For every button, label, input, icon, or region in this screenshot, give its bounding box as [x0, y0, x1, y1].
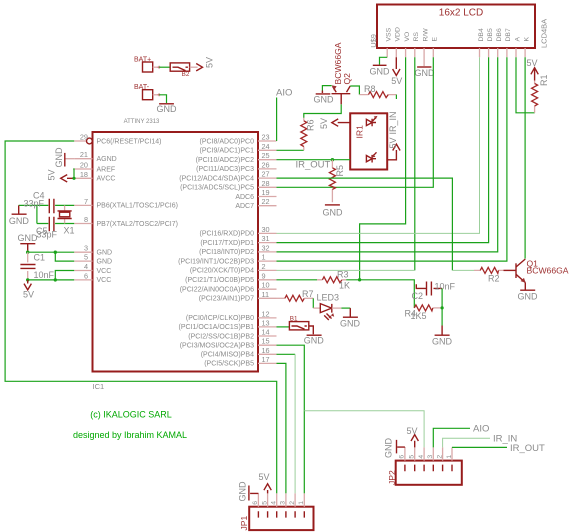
svg-text:E: E: [432, 37, 439, 42]
svg-text:(PCI3/MOSI/OC2A)PB3: (PCI3/MOSI/OC2A)PB3: [180, 343, 254, 350]
ground at AGND pin21: [54, 147, 74, 168]
wire C4/C5 left join: [36, 205, 38, 223]
wire VCC row pin6: [28, 279, 74, 281]
MCU pin 5 (GND): [74, 260, 92, 262]
svg-text:A: A: [514, 37, 521, 42]
svg-text:R7: R7: [302, 289, 314, 299]
svg-text:(PCI9/ADC1)PC1: (PCI9/ADC1)PC1: [200, 148, 255, 155]
svg-text:(PCI11/ADC3)PC3: (PCI11/ADC3)PC3: [196, 166, 254, 173]
svg-text:DB6: DB6: [496, 28, 503, 41]
svg-text:AGND: AGND: [97, 156, 117, 163]
wire LED3 cathode to ground: [332, 307, 342, 309]
svg-text:GND: GND: [18, 233, 39, 243]
svg-text:5V: 5V: [391, 76, 402, 86]
svg-text:16x2 LCD: 16x2 LCD: [439, 8, 483, 19]
wire VCC row pin4: [55, 271, 74, 280]
LCD pin stubs: [387, 48, 525, 66]
svg-text:DB5: DB5: [487, 28, 494, 41]
svg-text:5: 5: [261, 501, 268, 505]
wire R3 to R4/C2: [346, 280, 414, 308]
svg-text:AVCC: AVCC: [97, 176, 116, 183]
svg-text:5: 5: [409, 455, 416, 459]
svg-text:R8: R8: [364, 84, 376, 94]
wire LCD K to Q1 collector: [524, 57, 526, 258]
5V supply at JP2 pin5: [407, 426, 419, 447]
svg-text:31: 31: [262, 234, 270, 243]
svg-text:5V: 5V: [47, 169, 57, 180]
IR module IR1 box: [350, 113, 387, 169]
svg-text:GND: GND: [384, 438, 394, 459]
junction VO/R3 node: [358, 278, 361, 281]
svg-text:2: 2: [436, 455, 443, 459]
wire RESET rail: pin29 left, down, right to JP1 pin4: [5, 141, 277, 493]
wire R6 top to Q2 base: [304, 104, 341, 118]
svg-text:PB7(XTAL2/TOSC2/PCI7): PB7(XTAL2/TOSC2/PCI7): [97, 221, 178, 228]
svg-text:1K: 1K: [339, 281, 350, 291]
svg-text:(PCI4/MISO)PB4: (PCI4/MISO)PB4: [201, 352, 254, 359]
svg-text:6: 6: [84, 271, 88, 280]
wire BAT+ to B2: [159, 66, 170, 68]
MCU pin 27 ((PCI12/ADC4/SDA)PC4): [258, 177, 277, 179]
ground at JP1 pin6: [238, 481, 259, 502]
MCU pin 17 ((PCI5/SCK)PB5): [258, 362, 277, 364]
svg-text:2: 2: [289, 501, 296, 505]
svg-text:R2: R2: [488, 274, 500, 284]
JP1 pin leads: [258, 493, 304, 506]
svg-text:Q2: Q2: [342, 73, 352, 85]
ground under VSS: [370, 65, 391, 76]
5V supply at JP1 pin5: [259, 472, 272, 493]
svg-text:22: 22: [262, 197, 270, 206]
svg-text:(PCI10/ADC2)PC2: (PCI10/ADC2)PC2: [196, 157, 254, 164]
svg-text:R/W: R/W: [422, 28, 429, 42]
ground below C2/R4: [432, 326, 453, 347]
svg-text:1K5: 1K5: [411, 311, 427, 321]
svg-text:6: 6: [399, 455, 406, 459]
svg-text:6: 6: [252, 501, 259, 505]
ground at Q1 emitter: [518, 283, 539, 302]
wire pin25 to IR1 (IR_OUT net): [277, 159, 351, 161]
svg-text:GND: GND: [518, 292, 539, 302]
wire branch to JP2 pin4: [304, 411, 424, 448]
svg-text:9: 9: [262, 271, 266, 280]
ground below LED3: [340, 317, 361, 328]
svg-text:15: 15: [262, 337, 270, 346]
LED LED3: [313, 293, 339, 321]
MCU pin 8 (PB7(XTAL2/TOSC2/PCI7)): [74, 223, 92, 225]
svg-text:(PCI21/T1/OC0B)PD5: (PCI21/T1/OC0B)PD5: [185, 277, 254, 284]
wire GND row pin5: [55, 252, 74, 261]
svg-text:10: 10: [262, 281, 270, 290]
svg-text:17: 17: [262, 355, 270, 364]
wire LCD VO net: down, left, down to R3/R4 node: [360, 57, 406, 279]
svg-text:JP2: JP2: [387, 470, 397, 485]
junction C2/R4: [441, 306, 444, 309]
wire pin15 to JP1 pin1 and JP2 pin4: [277, 345, 305, 493]
svg-text:K: K: [523, 37, 530, 42]
svg-text:GND: GND: [370, 67, 391, 77]
wire Q2 emitter to ground: [322, 86, 331, 91]
svg-text:29: 29: [80, 133, 88, 142]
wire LCD DB4 net: [277, 57, 480, 233]
svg-text:5V: 5V: [23, 290, 34, 300]
svg-text:(PCI17/TXD)PD1: (PCI17/TXD)PD1: [200, 240, 254, 247]
svg-text:designed by Ibrahim KAMAL: designed by Ibrahim KAMAL: [73, 430, 187, 440]
resistor R8: [359, 84, 396, 98]
crystal X1: [58, 205, 75, 235]
svg-text:7: 7: [84, 197, 88, 206]
wire B1 to ground: [309, 326, 314, 334]
svg-text:14: 14: [262, 328, 270, 337]
svg-text:20: 20: [80, 161, 88, 170]
svg-text:(c) IKALOGIC SARL: (c) IKALOGIC SARL: [90, 410, 172, 420]
wire AIO stub from pin23: [276, 98, 278, 142]
resistor R4 1K5: [405, 305, 443, 321]
svg-text:1: 1: [298, 501, 305, 505]
JP2 pads: [405, 465, 452, 472]
transistor Q1 BCW66GA: [504, 259, 569, 283]
MCU pin 2 ((PCI20/XCK/T0)PD4): [258, 269, 277, 271]
svg-text:IR1: IR1: [354, 125, 364, 139]
MCU pin 15 ((PCI3/MOSI/OC2A)PB3): [258, 344, 277, 346]
MCU pin 11 ((PCI23/AIN1)PD7): [258, 297, 277, 299]
svg-text:33pF: 33pF: [37, 230, 58, 240]
svg-text:1: 1: [262, 253, 266, 262]
svg-text:(PCI16/RXD)PD0: (PCI16/RXD)PD0: [200, 231, 255, 238]
svg-text:26: 26: [262, 160, 270, 169]
svg-text:3: 3: [280, 501, 287, 505]
resistor R6: [301, 118, 316, 151]
svg-text:U$9: U$9: [369, 34, 378, 48]
LCD display U$9: [377, 5, 535, 49]
MCU pin 26 ((PCI11/ADC3)PC3): [258, 168, 277, 170]
5V supply at AVCC pin18: [47, 169, 76, 182]
svg-text:(PCI23/AIN1)PD7: (PCI23/AIN1)PD7: [199, 296, 254, 303]
MCU pin 32 ((PCI18/INT0)PD2): [258, 251, 277, 253]
svg-text:5V: 5V: [259, 472, 270, 482]
svg-text:B1: B1: [290, 316, 298, 323]
svg-text:AREF: AREF: [97, 166, 116, 173]
resistor R7: [285, 289, 314, 301]
svg-text:VCC: VCC: [97, 277, 112, 284]
svg-text:AIO: AIO: [276, 88, 292, 99]
svg-text:VO: VO: [404, 32, 411, 42]
svg-text:(PCI22/AIN0OC0A)PD6: (PCI22/AIN0OC0A)PD6: [180, 287, 254, 294]
wire JP2 pin1 to IR_OUT label: [452, 446, 507, 448]
junction C1 top: [26, 251, 29, 254]
svg-text:32: 32: [262, 243, 270, 252]
MCU pin 12 ((PCI0/ICP/CLKO)PB0): [258, 317, 277, 319]
MCU pin 19 (ADC6): [258, 196, 277, 198]
svg-text:GND: GND: [415, 68, 436, 78]
svg-text:GND: GND: [314, 95, 335, 105]
svg-text:10nF: 10nF: [34, 270, 55, 280]
MCU pin 30 ((PCI16/RXD)PD0): [258, 232, 277, 234]
svg-text:GND: GND: [238, 481, 248, 502]
ground below BAT-: [157, 104, 178, 114]
svg-text:R6: R6: [305, 119, 315, 131]
svg-text:VSS: VSS: [386, 27, 393, 41]
svg-text:IR_OUT: IR_OUT: [296, 160, 331, 171]
5V supply at VDD: [391, 57, 402, 86]
svg-text:R5: R5: [335, 165, 345, 177]
svg-text:11: 11: [262, 290, 270, 299]
capacitor C4 33pF: [24, 191, 54, 214]
svg-text:BCW66GA: BCW66GA: [527, 266, 569, 276]
svg-text:33pF: 33pF: [24, 199, 45, 209]
junction R5 top: [331, 158, 334, 161]
MCU pin 22 (ADC7): [258, 205, 277, 207]
svg-text:R1: R1: [539, 74, 549, 86]
svg-text:ATTINY 2313: ATTINY 2313: [124, 119, 160, 125]
svg-text:GND: GND: [97, 250, 113, 257]
svg-text:GND: GND: [9, 216, 30, 226]
MCU pin 25 ((PCI10/ADC2)PC2): [258, 159, 277, 161]
MCU pin 6 (VCC): [74, 279, 92, 281]
svg-text:30: 30: [262, 225, 270, 234]
svg-text:(PCI18/INT0)PD2: (PCI18/INT0)PD2: [199, 249, 254, 256]
resistor R1: [526, 58, 549, 113]
MCU pin 1 ((PCI19/INT1/OC2B)PD3): [258, 260, 277, 262]
svg-text:DB7: DB7: [505, 28, 512, 41]
wire JP2 pin3 to AIO label: [433, 428, 470, 447]
JP2 pin numbers: [399, 455, 453, 459]
MCU pin 20 (AREF): [74, 168, 92, 170]
svg-text:19: 19: [262, 188, 270, 197]
svg-text:28: 28: [262, 179, 270, 188]
wire R7 to LED3: [312, 298, 314, 308]
wire LCD E net: down to pin28 row, left to IC: [277, 57, 434, 187]
svg-text:4: 4: [418, 455, 425, 459]
battery terminal BAT-: [134, 84, 161, 100]
capacitor C5 33pF: [36, 217, 58, 240]
svg-text:GND: GND: [54, 147, 64, 168]
svg-text:GND: GND: [157, 104, 178, 114]
svg-text:IR_OUT: IR_OUT: [510, 443, 545, 454]
junction C1 bottom: [26, 278, 29, 281]
svg-text:21: 21: [80, 150, 88, 159]
5V supply below C1: [23, 280, 34, 300]
svg-text:3: 3: [84, 244, 88, 253]
JP1 pads: [258, 511, 304, 517]
wire VSS to ground: [380, 57, 388, 65]
ground below B1: [304, 335, 325, 345]
wire JP2 pin2 to IR_IN label: [443, 438, 490, 447]
svg-text:24: 24: [262, 142, 270, 151]
wire Q2 collector to R8: [350, 86, 359, 95]
battery terminal BAT+: [134, 57, 161, 73]
wire LCD DB5 net: [277, 57, 489, 242]
wire LCD DB6 net: [277, 57, 498, 252]
svg-text:ADC6: ADC6: [235, 194, 254, 201]
svg-text:5V: 5V: [205, 57, 215, 68]
svg-text:AIO: AIO: [473, 424, 489, 435]
wire R8 to IR_IN label stub: [395, 95, 397, 99]
svg-text:GND: GND: [432, 337, 453, 347]
svg-text:2: 2: [262, 262, 266, 271]
svg-text:VCC: VCC: [97, 268, 112, 275]
svg-text:3: 3: [427, 455, 434, 459]
svg-text:25: 25: [262, 151, 270, 160]
MCU pin 31 ((PCI17/TXD)PD1): [258, 242, 277, 244]
wire XTAL2 pin8 row: [37, 223, 74, 225]
wire pin24 to R6: [277, 149, 304, 151]
switch B2: [170, 63, 190, 78]
ground below R5: [323, 205, 344, 218]
wire C2/R4 to ground: [441, 288, 443, 325]
svg-text:13: 13: [262, 318, 270, 327]
svg-text:JP1: JP1: [239, 515, 249, 530]
junction pin4 branch: [54, 278, 57, 281]
connector JP2: [387, 461, 462, 485]
JP1 pin numbers: [252, 501, 305, 505]
IR1 detector diode: [366, 152, 376, 162]
MCU pin 16 ((PCI4/MISO)PB4): [258, 353, 277, 355]
IR1 emitter diode: [366, 116, 377, 126]
5V supply at IR1 right pin: [387, 137, 400, 159]
MCU pin 23 ((PCI8/ADC0)PC0): [258, 140, 277, 142]
svg-text:5V: 5V: [319, 118, 329, 129]
JP2 pin leads: [405, 447, 452, 460]
wire pin9 to R3: [277, 279, 318, 281]
svg-text:VDD: VDD: [395, 27, 402, 41]
MCU pin 7 (PB6(XTAL1/TOSC1/PCI6)): [74, 204, 92, 206]
wire pin17 to JP1 pin3: [277, 363, 286, 493]
svg-text:GND: GND: [323, 208, 344, 218]
svg-text:10nF: 10nF: [435, 282, 456, 292]
MCU pin 24 ((PCI9/ADC1)PC1): [258, 149, 277, 151]
svg-text:(PCI20/XCK/T0)PD4: (PCI20/XCK/T0)PD4: [190, 268, 254, 275]
svg-text:C1: C1: [34, 253, 46, 263]
svg-text:RS: RS: [413, 32, 420, 42]
wire GND row pin3: [28, 251, 74, 253]
svg-text:1: 1: [446, 455, 453, 459]
svg-text:(PCI8/ADC0)PC0: (PCI8/ADC0)PC0: [200, 138, 255, 145]
MCU IC1 box: [93, 132, 259, 372]
connector JP1: [239, 507, 314, 531]
svg-text:(PCI5/SCK)PB5: (PCI5/SCK)PB5: [204, 361, 254, 368]
svg-text:PC6(/RESET/PCI14): PC6(/RESET/PCI14): [97, 138, 162, 145]
MCU pin 28 ((PCI13/ADC5/SCL)PC5): [258, 186, 277, 188]
svg-text:(PCI2/SS/OC1B)PB2: (PCI2/SS/OC1B)PB2: [188, 333, 254, 340]
MCU pin 29 (PC6(/RESET/PCI14)): [74, 140, 86, 142]
MCU pin 10 ((PCI22/AIN0OC0A)PD6): [258, 288, 277, 290]
wire LCD RS net: down to PD4 row: [414, 57, 416, 270]
svg-text:(PCI1/OC1A/OC1S)PB1: (PCI1/OC1A/OC1S)PB1: [179, 324, 255, 331]
svg-text:LED3: LED3: [317, 293, 340, 303]
svg-text:5: 5: [84, 253, 88, 262]
ground left of C4: [9, 205, 30, 226]
ground above C1: [18, 233, 39, 251]
svg-text:5V: 5V: [407, 426, 418, 436]
wire pin13 to B1: [277, 326, 290, 328]
wire pin27 to R2 node: [277, 178, 453, 270]
capacitor C1 10nF: [20, 252, 54, 280]
MCU pin 14 ((PCI2/SS/OC1B)PB2): [258, 335, 277, 337]
svg-text:LCD4BA: LCD4BA: [540, 19, 549, 48]
svg-text:12: 12: [262, 309, 270, 318]
svg-text:C2: C2: [412, 291, 424, 301]
MCU pin 4 (VCC): [74, 270, 92, 272]
svg-text:(PCI0/ICP/CLKO)PB0: (PCI0/ICP/CLKO)PB0: [186, 315, 254, 322]
MCU pin 18 (AVCC): [74, 177, 92, 179]
svg-text:8: 8: [84, 215, 88, 224]
resistor R2: [474, 267, 504, 283]
MCU pin 21 (AGND): [74, 158, 92, 160]
ground under R/W: [415, 67, 436, 78]
svg-text:5V: 5V: [526, 58, 537, 68]
MCU pin 13 ((PCI1/OC1A/OC1S)PB1): [258, 326, 277, 328]
5V supply right of B2: [190, 57, 215, 71]
svg-text:4: 4: [271, 501, 278, 505]
svg-text:4: 4: [84, 262, 88, 271]
switch B1: [289, 316, 308, 330]
wire pin2 RS row: [277, 269, 415, 271]
svg-text:18: 18: [80, 170, 88, 179]
svg-text:R3: R3: [337, 270, 349, 280]
MCU pin 9 ((PCI21/T1/OC0B)PD5): [258, 279, 277, 281]
ground at Q2 emitter: [314, 91, 335, 105]
resistor R3 1K: [317, 270, 350, 291]
transistor Q2 BCW66GA: [332, 42, 353, 104]
svg-text:5V: 5V: [388, 137, 398, 148]
svg-text:GND: GND: [97, 258, 113, 265]
wire pin16 to JP1 pin2: [277, 353, 296, 355]
wire LCD A to R1: [516, 57, 535, 113]
svg-text:ADC7: ADC7: [235, 203, 254, 210]
svg-text:(PCI19/INT1/OC2B)PD3: (PCI19/INT1/OC2B)PD3: [178, 258, 254, 265]
svg-text:IR_IN: IR_IN: [388, 111, 398, 134]
5V supply at IR1 left pin: [319, 118, 350, 129]
MCU pin 3 (GND): [74, 251, 92, 253]
svg-text:(PCI13/ADC5/SCL)PC5: (PCI13/ADC5/SCL)PC5: [180, 185, 254, 192]
wire BAT- to ground: [159, 95, 166, 103]
wire XTAL1 pin7 row: [19, 204, 74, 206]
svg-text:GND: GND: [304, 336, 325, 346]
svg-text:16: 16: [262, 346, 270, 355]
svg-text:B2: B2: [182, 71, 190, 78]
svg-text:IC1: IC1: [93, 382, 105, 391]
ground at JP2 pin6: [384, 438, 405, 459]
junction pin5 branch: [54, 251, 57, 254]
svg-text:GND: GND: [340, 319, 361, 329]
wire pin11 lead to R7: [277, 297, 285, 299]
svg-text:DB4: DB4: [478, 28, 485, 41]
svg-text:X1: X1: [64, 226, 75, 236]
wire LCD DB7 net: [277, 57, 507, 261]
svg-text:(PCI12/ADC4/SDA)PC4: (PCI12/ADC4/SDA)PC4: [179, 175, 254, 182]
svg-text:23: 23: [262, 133, 270, 142]
capacitor C2 10nF: [412, 282, 456, 302]
svg-text:27: 27: [262, 170, 270, 179]
svg-text:PB6(XTAL1/TOSC1/PCI6): PB6(XTAL1/TOSC1/PCI6): [97, 203, 178, 210]
resistor R5: [329, 160, 345, 203]
